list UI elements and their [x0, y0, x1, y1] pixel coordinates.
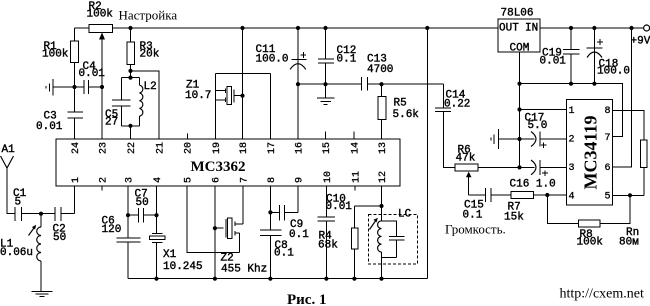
svg-text:10.245: 10.245: [163, 261, 203, 273]
svg-text:5: 5: [183, 177, 194, 183]
resistor R1: [42, 28, 78, 87]
svg-text:0.1: 0.1: [463, 210, 483, 222]
IC U2 MC34119 body: [567, 100, 613, 206]
svg-text:3: 3: [569, 163, 575, 174]
junction rail/pin6: [213, 277, 217, 281]
svg-text:4: 4: [153, 177, 164, 183]
wire pin8 drop: [269, 186, 271, 230]
svg-text:100.0: 100.0: [256, 54, 289, 66]
svg-text:6: 6: [605, 163, 611, 174]
junction R3/tank: [128, 69, 132, 73]
svg-text:23: 23: [99, 142, 110, 154]
junction C11/pin16: [296, 82, 300, 86]
svg-text:0.1: 0.1: [337, 54, 357, 66]
svg-text:2: 2: [99, 177, 110, 183]
capacitor C7: [128, 189, 157, 223]
svg-text:6: 6: [211, 177, 222, 183]
svg-text:12: 12: [378, 171, 389, 183]
wire top supply bus left: [75, 27, 499, 29]
svg-text:10.7: 10.7: [185, 90, 211, 102]
svg-text:22: 22: [127, 142, 138, 154]
junction tank/pin22: [128, 124, 132, 128]
capacitor C15: [463, 188, 512, 222]
svg-text:Настройка: Настройка: [119, 8, 178, 23]
svg-text:0.01: 0.01: [326, 201, 353, 213]
svg-text:R5: R5: [394, 98, 407, 110]
wire R2 wiper to pin 23: [101, 87, 103, 139]
junction pin12/R4: [379, 204, 383, 208]
ground below C12: [317, 84, 335, 105]
svg-text:A1: A1: [2, 144, 16, 156]
wire pin14 stub: [353, 132, 355, 140]
capacitor C19: [540, 28, 580, 84]
svg-text:C16 1.0: C16 1.0: [510, 179, 556, 191]
svg-text:0.01: 0.01: [540, 56, 567, 68]
terminal +9V: [631, 25, 650, 48]
node junction R2/R3: [128, 26, 132, 30]
capacitor C8: [260, 230, 294, 279]
capacitor C17 (electrolytic): [520, 113, 567, 149]
wire pin20 stub: [187, 134, 189, 140]
wire tank top: [121, 71, 139, 78]
svg-text:80м: 80м: [619, 237, 639, 249]
junction rail/LC: [379, 277, 383, 281]
svg-text:120: 120: [102, 224, 122, 236]
ceramic filter Z2: [215, 218, 267, 276]
junction COM/pin1: [517, 107, 521, 111]
svg-text:MC3362: MC3362: [191, 159, 246, 175]
wire pin3 drop: [127, 186, 129, 238]
svg-text:78L06: 78L06: [501, 8, 534, 20]
resistor R3: [127, 28, 160, 71]
svg-text:10: 10: [323, 171, 334, 183]
wire LC to rail: [381, 257, 383, 278]
junction rail/C8: [268, 277, 272, 281]
wire COM to pin1: [520, 109, 567, 111]
wire pin6 drop: [214, 186, 216, 279]
voltage regulator 78L06: [498, 8, 540, 55]
svg-text:20k: 20k: [140, 49, 160, 61]
svg-text:3: 3: [125, 177, 136, 183]
svg-text:5.6k: 5.6k: [393, 109, 420, 121]
svg-text:13: 13: [378, 142, 389, 154]
svg-text:0.1: 0.1: [274, 248, 294, 260]
svg-text:Рис. 1: Рис. 1: [287, 292, 326, 306]
junction bus/pin6 feed: [629, 26, 633, 30]
junction C19/rail: [569, 82, 573, 86]
junction C4/wiper node: [100, 85, 104, 89]
wire pin7 drop: [242, 186, 244, 224]
ceramic filter Z1: [185, 80, 243, 105]
wire pin16 riser: [297, 84, 299, 139]
svg-text:5: 5: [605, 192, 611, 203]
svg-text:0.06u: 0.06u: [0, 247, 33, 259]
junction bus/right feed: [425, 26, 429, 30]
resistor R8: [547, 195, 630, 249]
svg-text:27: 27: [105, 116, 118, 128]
resistor R5: [378, 84, 420, 139]
resistor R7: [504, 191, 567, 223]
svg-text:8: 8: [267, 177, 278, 183]
wire pin2 stub: [101, 186, 103, 191]
capacitor C6: [102, 216, 141, 279]
junction COM/C17: [517, 137, 521, 141]
wire pin17 riser: [269, 74, 271, 139]
potentiometer R2: [87, 1, 114, 87]
svg-text:OUT: OUT: [499, 23, 519, 35]
capacitor C18 (electrolytic): [587, 28, 631, 84]
svg-text:0.1: 0.1: [289, 229, 309, 241]
svg-text:1: 1: [569, 106, 575, 117]
resistor R4: [318, 206, 382, 279]
svg-text:8: 8: [605, 106, 611, 117]
wire pin12 drop: [381, 186, 383, 221]
wire pin5 drop: [187, 186, 240, 253]
svg-text:4700: 4700: [367, 64, 393, 76]
svg-text:7: 7: [239, 177, 250, 183]
svg-text:68k: 68k: [318, 240, 338, 252]
inductor L1 (adjustable): [0, 214, 41, 261]
capacitor C5: [105, 78, 131, 129]
potentiometer R6: [444, 112, 520, 196]
wire pin11 stub: [354, 186, 356, 191]
capacitor C16 (electrolytic): [510, 160, 567, 191]
svg-text:15k: 15k: [504, 212, 524, 224]
svg-text:5.0: 5.0: [528, 120, 548, 132]
ground (sideways) at R1 node: [46, 79, 75, 96]
capacitor C13: [362, 54, 394, 91]
junction pin3/C7: [126, 213, 130, 217]
svg-text:IN: IN: [525, 23, 538, 35]
svg-text:11: 11: [352, 171, 363, 183]
svg-text:14: 14: [351, 142, 362, 154]
junction bus/C18: [592, 26, 596, 30]
capacitor C9: [270, 205, 309, 241]
svg-text:100k: 100k: [87, 9, 114, 21]
svg-text:MC34119: MC34119: [581, 116, 601, 190]
svg-text:20: 20: [184, 142, 195, 154]
svg-text:+9V: +9V: [631, 36, 650, 48]
junction R1/C3/C4 node: [72, 85, 76, 89]
svg-text:100k: 100k: [42, 49, 69, 61]
svg-text:0.22: 0.22: [444, 99, 470, 111]
wire demod node: [298, 83, 444, 85]
junction R7/R8/pin4: [545, 193, 549, 197]
capacitor C1: [13, 188, 41, 221]
wire pin6 to +9V bus: [613, 28, 632, 167]
junction C13/R5: [379, 82, 383, 86]
capacitor C4: [75, 61, 106, 94]
wire tank bottom to pin 22: [121, 126, 139, 139]
svg-text:100.0: 100.0: [597, 66, 630, 78]
wire top supply bus right of 78L06: [540, 27, 644, 29]
junction rail/X1: [154, 277, 158, 281]
wire tank feed to pin 21: [131, 71, 159, 139]
junction bus/C19: [569, 26, 573, 30]
svg-text:X1: X1: [163, 249, 177, 261]
junction C12/ground: [323, 82, 327, 86]
junction rail/C10: [324, 277, 328, 281]
wire pin15 stub: [325, 132, 327, 140]
capacitor C2: [41, 207, 75, 244]
junction bus/pin18: [240, 26, 244, 30]
wire analog ground rail: [520, 84, 623, 137]
svg-text:17: 17: [267, 142, 278, 154]
svg-text:9: 9: [295, 177, 306, 183]
capacitor C14: [435, 84, 470, 167]
crystal X1: [150, 186, 203, 279]
ground below L1: [32, 261, 53, 297]
capacitor C11 (electrolytic): [256, 28, 307, 84]
svg-text:50: 50: [136, 197, 149, 209]
svg-text:1: 1: [71, 177, 82, 183]
svg-text:0.01: 0.01: [79, 68, 106, 80]
svg-text:4: 4: [569, 192, 575, 203]
resistor Rn (load): [613, 111, 648, 249]
wire Z1 top link to pin17: [216, 73, 271, 75]
junction tank top: [128, 76, 132, 80]
junction C18/rail: [592, 82, 596, 86]
svg-text:16: 16: [295, 142, 306, 154]
junction COM/R6/C16: [517, 165, 521, 169]
junction pin6/Z2: [213, 226, 217, 230]
svg-text:15: 15: [322, 142, 333, 154]
junction bus/C12: [323, 26, 327, 30]
svg-text:24: 24: [71, 142, 82, 154]
junction C1/C2/L1: [39, 212, 43, 216]
junction bus/C11: [296, 26, 300, 30]
junction pin5/R8: [628, 193, 632, 197]
wire pin9 drop: [297, 186, 299, 212]
svg-text:5: 5: [15, 197, 22, 209]
svg-text:21: 21: [155, 142, 166, 154]
wire pin5 stub: [613, 194, 644, 196]
antenna A1: [1, 144, 16, 214]
svg-text:47k: 47k: [456, 153, 476, 165]
junction rail/R4: [352, 277, 356, 281]
inductor L of LC tank: [370, 218, 382, 258]
junction COM/ground rail: [517, 82, 521, 86]
svg-text:100k: 100k: [577, 237, 604, 249]
LC tank (dashed): [369, 209, 418, 265]
capacitor C of LC tank: [382, 221, 405, 258]
svg-text:LC: LC: [398, 209, 412, 221]
wire pin1 drop: [74, 186, 76, 214]
svg-text:7: 7: [605, 133, 611, 144]
capacitor C10: [317, 186, 352, 279]
svg-text:50: 50: [53, 232, 66, 244]
svg-text:19: 19: [212, 142, 223, 154]
svg-text:18: 18: [239, 142, 250, 154]
svg-text:2: 2: [569, 135, 575, 146]
svg-text:455 Khz: 455 Khz: [221, 264, 267, 276]
wire bottom rail: [128, 278, 427, 280]
svg-text:Громкость.: Громкость.: [445, 222, 506, 237]
inductor L2: [139, 78, 156, 126]
junction pin4/C7: [154, 213, 158, 217]
junction pin8/C9: [268, 210, 272, 214]
svg-text:L2: L2: [144, 81, 157, 93]
capacitor C3: [36, 87, 83, 139]
wire pin19 riser: [215, 74, 217, 139]
svg-text:0.01: 0.01: [36, 121, 63, 133]
wire COM line: [519, 52, 521, 167]
junction Z1 out/pin18: [240, 94, 244, 98]
capacitor C12: [318, 28, 357, 84]
svg-text:http://cxem.net: http://cxem.net: [560, 287, 644, 302]
wire bus to pin18: [242, 28, 244, 139]
IC U1 MC3362 body: [56, 139, 400, 186]
ground (sideways) at COM: [491, 129, 520, 149]
wire bus right feed down to bottom rail: [426, 28, 428, 279]
